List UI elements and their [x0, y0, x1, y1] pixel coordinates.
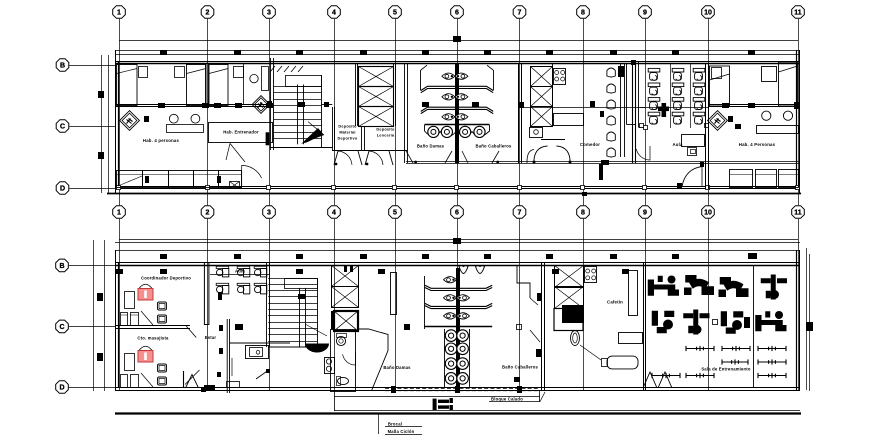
upper plan top wall [116, 61, 800, 63]
lower stall partitions [425, 285, 492, 288]
estar area walls [186, 326, 196, 338]
svg-text:C: C [59, 324, 64, 331]
svg-text:Baño Damas: Baño Damas [383, 365, 411, 370]
bedroom2 closet wall [243, 64, 245, 105]
caballeros privacy wall [517, 265, 530, 298]
lower plan interior ticks below top wall [160, 269, 167, 274]
svg-text:Baño Caballeros: Baño Caballeros [475, 144, 512, 149]
svg-text:Malla Ciclón: Malla Ciclón [388, 429, 415, 434]
svg-text:9: 9 [643, 9, 647, 16]
bedroom 1 beds [117, 65, 138, 106]
vestibule angled walls [358, 329, 389, 390]
svg-text:5: 5 [393, 9, 397, 16]
svg-text:Sala de Entrenamiento: Sala de Entrenamiento [701, 367, 751, 372]
hab 4 personas stools and table [169, 114, 178, 123]
office1 furniture [125, 292, 135, 309]
kitchen pass counter [554, 114, 584, 126]
kitchen shelf x-boxes [531, 67, 553, 87]
cafetin stove [585, 267, 597, 283]
svg-text:4: 4 [332, 9, 336, 16]
bathroom stall partitions [421, 86, 493, 90]
grid bubbles top row 1-11 [113, 6, 126, 19]
right bedroom counter [757, 126, 799, 134]
right bedroom diamond [708, 111, 728, 131]
svg-text:Aula: Aula [672, 142, 683, 147]
aula side ledge [638, 62, 640, 127]
svg-text:2: 2 [206, 209, 210, 216]
dark elevator box lower [334, 311, 358, 331]
grid bubbles middle row 1-11 [113, 206, 126, 219]
wc under stairs [331, 330, 356, 392]
svg-text:Lencería: Lencería [377, 133, 395, 138]
upper bottom wall column squares [117, 186, 121, 190]
svg-text:6: 6 [455, 9, 459, 16]
svg-text:Hab. 4 personas: Hab. 4 personas [143, 138, 180, 143]
aula door arc [636, 146, 650, 160]
brocal malla labels [378, 414, 380, 435]
office divider wall [116, 325, 190, 327]
bano caballeros right wall [518, 64, 520, 163]
aula mid line [640, 107, 708, 109]
cleaning box with circles [325, 358, 335, 374]
vestibule planter [391, 273, 397, 315]
svg-text:1: 1 [117, 209, 121, 216]
svg-text:Baño Caballeros: Baño Caballeros [502, 365, 539, 370]
cafetin right wall [643, 262, 645, 390]
svg-text:D: D [60, 185, 65, 192]
gym machines row 2 [652, 311, 675, 334]
aula teacher desk [682, 135, 705, 147]
bathroom central wall [455, 64, 459, 163]
bedroom 2 bed and closet [209, 65, 228, 106]
lower bathroom left wall [424, 276, 426, 329]
svg-text:7: 7 [518, 209, 522, 216]
upper plan left dimension lines [101, 55, 103, 193]
svg-text:D: D [59, 384, 64, 391]
svg-text:Cto. masajista: Cto. masajista [137, 336, 169, 341]
svg-text:1: 1 [117, 9, 121, 16]
upper facade tick marks [160, 50, 167, 55]
toilets upper plan [442, 73, 455, 79]
wc door arc [343, 352, 356, 365]
lower facade tick marks [160, 254, 167, 259]
svg-text:Comedor: Comedor [580, 142, 600, 147]
hab entrenador room [209, 123, 273, 143]
entrance door lower left [186, 375, 199, 389]
aula chairs grid [648, 68, 660, 80]
sink counters upper [425, 124, 490, 126]
left grid bubbles upper plan [56, 59, 69, 72]
svg-text:Cafetín: Cafetín [607, 300, 623, 305]
svg-text:Depósito: Depósito [338, 124, 357, 129]
ground thick line [115, 412, 801, 414]
svg-text:Baño Damas: Baño Damas [417, 144, 445, 149]
lower plan top wall [116, 262, 800, 264]
right bedroom closets [730, 170, 753, 188]
svg-text:Bloque Calado: Bloque Calado [491, 397, 523, 402]
bloque calado fence [385, 387, 540, 389]
lower bathroom central wall [456, 268, 460, 390]
right bedroom mid wall [708, 104, 798, 106]
gate glyph [433, 398, 453, 410]
svg-text:B: B [59, 263, 64, 270]
pink massage table 1 [138, 284, 153, 300]
lower plan left wall [115, 250, 117, 391]
deposito door arcs [334, 151, 362, 165]
cafetin shelf boxes [555, 266, 584, 288]
stairs lower plan [285, 279, 318, 289]
lower plan left dimension lines [93, 240, 95, 391]
upper plan left wall [115, 50, 117, 193]
door arc corridor left [242, 165, 262, 187]
terrace hatch above stairs [270, 66, 275, 72]
gym interior wall [753, 265, 755, 388]
upper plan right wall [796, 50, 798, 190]
svg-text:Hab. 4 Personas: Hab. 4 Personas [739, 142, 776, 147]
lower sinks [444, 329, 446, 388]
diamond symbol left wall [120, 111, 140, 131]
comedor right wall [632, 62, 634, 163]
small table with x bottom [230, 182, 240, 189]
svg-text:Deportivo: Deportivo [338, 136, 358, 141]
comedor mid line [521, 107, 645, 109]
lower plan facade lines [119, 239, 798, 241]
kitchen door [527, 150, 534, 164]
cafetin dark prep table [562, 305, 584, 323]
svg-text:5: 5 [393, 209, 397, 216]
elevator shaft boxes upper [359, 67, 394, 87]
stairs upper plan [270, 58, 272, 150]
aula right wall [705, 64, 707, 189]
bedroom mid wall [116, 104, 274, 106]
grid vertical lines upper plan [119, 19, 121, 205]
kitchen stove icon [554, 69, 566, 85]
gym right dimension line [806, 248, 808, 390]
adm office desks [216, 266, 229, 277]
comedor double doors [534, 146, 548, 163]
caballeros right wall [541, 262, 543, 390]
svg-text:Depósito: Depósito [376, 127, 395, 132]
right bedroom beds [710, 66, 730, 106]
deposito material deportivo room [332, 107, 334, 151]
urinals top [459, 266, 468, 274]
svg-text:11: 11 [794, 209, 802, 216]
elevator side walls [355, 64, 357, 126]
bottom closet row bedroom1 [117, 171, 143, 188]
left grid bubbles lower plan [56, 259, 69, 272]
bedroom divider wall [205, 64, 207, 106]
svg-text:3: 3 [267, 9, 271, 16]
comedor chairs [607, 68, 615, 77]
top wall door jambs [344, 266, 347, 272]
cafetin sink oval [571, 331, 580, 346]
comedor tables [620, 64, 622, 158]
gym machines row 1 [648, 276, 679, 296]
svg-text:10: 10 [704, 9, 712, 16]
kitchen sink [530, 128, 543, 138]
svg-text:Material: Material [339, 130, 355, 135]
svg-text:Estar: Estar [205, 335, 217, 340]
svg-text:Hab. Entrenador: Hab. Entrenador [223, 130, 259, 135]
svg-text:8: 8 [581, 9, 585, 16]
svg-text:Coordinador Deportivo: Coordinador Deportivo [141, 275, 191, 280]
elevator boxes lower [332, 266, 359, 287]
lower plan bottom wall [115, 387, 800, 389]
right bedroom sinks [762, 111, 771, 120]
walkway band [334, 396, 540, 398]
diamond symbol near stairs [252, 96, 270, 114]
gym dumbbell rows [686, 346, 714, 351]
upper plan facade lines [119, 40, 798, 42]
aula wall squares [640, 124, 644, 128]
svg-text:6: 6 [455, 209, 459, 216]
upper plan bottom wall [115, 186, 800, 188]
aula column cross [658, 103, 669, 117]
svg-text:B: B [60, 62, 65, 69]
svg-text:9: 9 [643, 209, 647, 216]
svg-text:10: 10 [704, 209, 712, 216]
svg-text:Brocal: Brocal [388, 421, 402, 426]
u-shaped corridor wall [204, 262, 209, 325]
cafetin counter [629, 271, 638, 316]
svg-text:2: 2 [206, 9, 210, 16]
pink massage table 2 [138, 346, 153, 362]
svg-text:3: 3 [267, 209, 271, 216]
svg-text:C: C [60, 123, 65, 130]
svg-text:11: 11 [794, 9, 802, 16]
lower toilets [444, 277, 457, 283]
grid vertical lines lower plan [119, 219, 121, 391]
massage table cafetin [607, 356, 638, 369]
office2 furniture [125, 354, 135, 371]
lower plan right wall [796, 250, 798, 390]
svg-text:4: 4 [332, 209, 336, 216]
bathroom bottom walls [406, 161, 800, 163]
kitchenette estar [246, 346, 269, 359]
svg-text:7: 7 [518, 9, 522, 16]
gym entrance doors [643, 372, 672, 388]
svg-text:8: 8 [581, 209, 585, 216]
